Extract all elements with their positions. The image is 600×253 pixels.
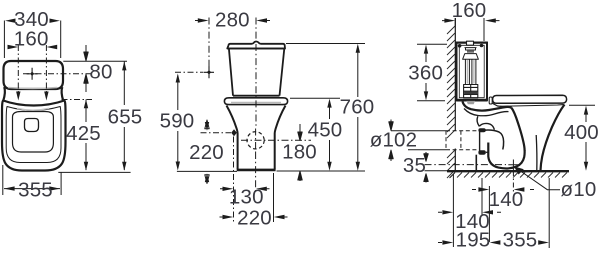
- floor ext left: [177, 170, 237, 172]
- outlet tongue: [467, 101, 476, 104]
- supply cross: [204, 66, 215, 78]
- cistern side section: [457, 43, 488, 101]
- drain cross: [508, 160, 518, 171]
- bowl rim left profile: [493, 103, 512, 107]
- svg-text:140: 140: [489, 188, 524, 211]
- svg-text:400: 400: [564, 121, 599, 144]
- opening top shade: [17, 108, 49, 110]
- svg-text:450: 450: [308, 119, 343, 142]
- svg-text:160: 160: [14, 28, 49, 51]
- valve tubes: [465, 59, 476, 84]
- dim 35 arrows: [424, 152, 428, 161]
- dim 80 lower arrow: [84, 74, 88, 92]
- dim 130 arrows: [223, 187, 267, 191]
- body waist right: [62, 87, 64, 101]
- svg-text:355: 355: [18, 179, 53, 202]
- bowl rim band front: [224, 98, 287, 105]
- svg-text:220: 220: [237, 206, 272, 229]
- water spot: [25, 119, 39, 132]
- dim o102 ext bottom: [408, 149, 446, 151]
- trap inlet hook: [479, 123, 494, 129]
- dim 655 line top: [123, 62, 125, 105]
- seat hinge: [489, 97, 492, 104]
- outlet axis below floor: [512, 171, 514, 192]
- svg-text:ø10: ø10: [561, 178, 597, 201]
- dim 590 line: [177, 76, 179, 169]
- svg-text:35: 35: [403, 154, 426, 177]
- flush button: [467, 41, 474, 45]
- rim to inlet curve: [477, 116, 479, 126]
- dim 355r arrows: [490, 240, 549, 244]
- cistern lid side: [456, 42, 488, 44]
- svg-text:655: 655: [108, 106, 143, 129]
- supply centreline horizontal: [175, 71, 203, 73]
- bowl outer right: [541, 105, 565, 171]
- dim 180 arrows: [298, 124, 302, 141]
- svg-text:ø102: ø102: [370, 129, 418, 152]
- dim 760 line: [357, 46, 359, 168]
- bowl opening: [13, 112, 54, 153]
- svg-text:130: 130: [229, 186, 264, 209]
- valve base block: [464, 85, 478, 98]
- dim 425 line top: [85, 100, 87, 123]
- fixing arrow left down: [16, 92, 20, 101]
- base ext line right: [273, 173, 275, 222]
- valve body: [463, 54, 479, 60]
- spigot gaskets: [478, 128, 485, 132]
- dim 340 ext lines: [4, 21, 60, 59]
- trap passage top: [484, 130, 504, 149]
- ext 400 top: [569, 104, 595, 106]
- svg-text:425: 425: [66, 122, 101, 145]
- trap U: [488, 143, 524, 169]
- dim 280 arrows: [198, 18, 267, 22]
- spigot face: [479, 129, 481, 155]
- dash-dot ext y99: [62, 99, 93, 101]
- ext 450 top: [290, 97, 340, 99]
- bowl outer plan: [2, 101, 66, 171]
- dim 220 bottom arrows: [223, 215, 285, 219]
- svg-text:280: 280: [215, 8, 250, 31]
- ext 760 top: [286, 43, 365, 45]
- floor line: [447, 170, 569, 172]
- dim o102 ext top: [391, 130, 446, 132]
- dim 355 ext lines: [3, 165, 61, 195]
- floor hatch: [450, 173, 567, 178]
- base ext dashdot left: [233, 137, 235, 223]
- centreline vertical: [255, 18, 257, 129]
- svg-text:220: 220: [189, 141, 224, 164]
- dim 80 upper arrow: [84, 45, 88, 61]
- dim 220 left arrows: [205, 120, 209, 184]
- svg-text:760: 760: [340, 96, 375, 119]
- dim 160r arrows: [444, 18, 495, 22]
- dim 655 line bottom: [123, 127, 125, 170]
- fixing centreline left: [17, 45, 19, 94]
- bottom ext E: [548, 178, 550, 248]
- svg-text:195: 195: [456, 229, 491, 252]
- wall face line: [454, 18, 456, 171]
- bottom ext A wall: [452, 174, 454, 247]
- outlet circle dashed: [247, 132, 264, 149]
- floor ext left of wall: [425, 170, 448, 172]
- valve base dark: [464, 92, 477, 95]
- svg-text:180: 180: [282, 141, 317, 164]
- seat underside line: [500, 105, 564, 107]
- svg-text:590: 590: [160, 110, 195, 133]
- cistern bottom shade: [8, 88, 57, 89]
- hole dashed bottom: [446, 149, 479, 151]
- ext 360 top: [417, 43, 447, 45]
- bowl rim channel: [463, 102, 512, 111]
- cistern body front: [227, 49, 285, 96]
- dim 450 line: [329, 101, 331, 168]
- side outlet centreline: [201, 132, 232, 134]
- dim 355 line: [4, 188, 60, 190]
- foot right line: [535, 135, 538, 171]
- seat lid side: [493, 95, 567, 103]
- svg-text:355: 355: [503, 229, 538, 252]
- bottom ext B: [481, 178, 483, 215]
- trap axis dashdot: [425, 164, 507, 166]
- tank bottom: [457, 99, 488, 101]
- cistern lid front: [227, 42, 285, 49]
- lid knobs: [458, 44, 462, 48]
- dim 195 arrow: [438, 242, 442, 244]
- o10 leader: [519, 170, 560, 190]
- fixing arrow right down: [44, 92, 48, 101]
- dim 160r ext lines: [455, 18, 484, 41]
- dim 340 arrows: [5, 19, 60, 23]
- bowl dome front: [227, 106, 286, 170]
- dim 140b arrows: [438, 211, 501, 213]
- side outlet diamond: [231, 129, 237, 136]
- centreline to 80: [23, 73, 92, 75]
- pedestal base line: [237, 169, 276, 172]
- dim o102 arrows: [389, 120, 393, 131]
- dim 425 line bottom: [58, 143, 130, 172]
- top extension 655/80: [63, 60, 127, 62]
- inlet cross plan: [27, 68, 38, 80]
- wall hatch: [447, 26, 455, 178]
- circle cross: [241, 129, 311, 153]
- cistern top view outline: [4, 61, 64, 89]
- bowl inner wall diagonal: [512, 108, 525, 151]
- body waist left: [3, 87, 5, 101]
- hole dashed vertical: [446, 131, 461, 150]
- fixing centreline right: [45, 45, 47, 94]
- rim band shade: [231, 102, 281, 104]
- floor ext right: [277, 170, 366, 172]
- ext 360 bottom: [417, 100, 445, 102]
- dim 400 line: [585, 108, 587, 168]
- svg-text:160: 160: [452, 0, 487, 22]
- dim 160 arrows: [8, 45, 58, 49]
- fill valve top: [465, 48, 477, 50]
- hole dashed top: [446, 130, 479, 132]
- seat inner ring: [6, 107, 61, 163]
- trap lower line: [486, 151, 489, 153]
- dim 140a arrows: [472, 189, 534, 191]
- dim 360 line: [425, 47, 427, 98]
- svg-text:80: 80: [89, 61, 112, 84]
- svg-text:360: 360: [408, 61, 443, 84]
- bottom ext C: [488, 186, 490, 242]
- trap outline to foot: [475, 155, 477, 171]
- supply centreline vertical: [208, 18, 210, 70]
